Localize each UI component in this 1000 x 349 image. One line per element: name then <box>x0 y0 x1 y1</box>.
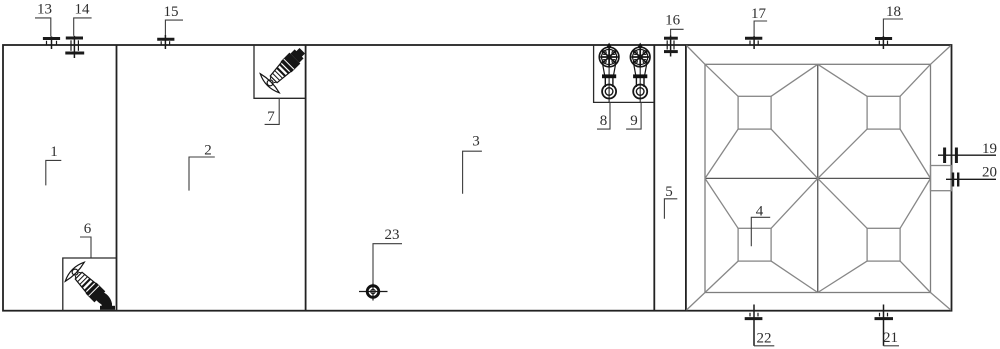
svg-text:1: 1 <box>50 144 58 160</box>
svg-text:18: 18 <box>886 4 901 20</box>
svg-text:6: 6 <box>84 221 92 237</box>
svg-text:5: 5 <box>665 184 673 200</box>
svg-text:9: 9 <box>630 113 638 129</box>
svg-text:22: 22 <box>757 331 772 347</box>
svg-text:23: 23 <box>385 227 400 243</box>
svg-text:17: 17 <box>751 6 767 22</box>
svg-text:15: 15 <box>164 4 179 20</box>
svg-text:13: 13 <box>37 2 52 18</box>
svg-text:20: 20 <box>982 165 997 181</box>
svg-text:16: 16 <box>665 13 681 29</box>
svg-text:8: 8 <box>600 113 608 129</box>
svg-text:7: 7 <box>267 109 275 125</box>
svg-text:21: 21 <box>883 330 898 346</box>
svg-text:14: 14 <box>75 2 91 18</box>
svg-text:4: 4 <box>756 204 764 220</box>
svg-text:2: 2 <box>204 143 212 159</box>
svg-text:3: 3 <box>472 134 480 150</box>
svg-text:19: 19 <box>982 141 997 157</box>
